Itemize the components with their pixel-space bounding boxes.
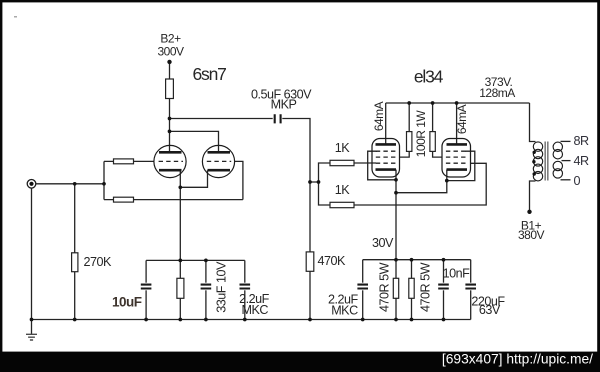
node rail 100R1 <box>407 101 411 105</box>
wire upper grid branch through R to left triode grid <box>104 160 154 162</box>
wire ground rail <box>32 319 471 321</box>
wire left EL34 cathode 30V line down <box>395 170 397 320</box>
resistor grid lower <box>114 197 134 202</box>
node rail 100R2 <box>431 101 435 105</box>
wire 2.2uF MKC leg <box>244 260 246 319</box>
node right cathode g3 <box>445 179 449 183</box>
svg-text:0: 0 <box>574 174 581 188</box>
capacitor 0.5uF MKP coupling <box>273 114 283 125</box>
wire secondary tap 4R <box>562 160 571 162</box>
wire left EL34 g3 to cathode frame <box>368 151 396 180</box>
capacitor 10uF <box>140 283 152 291</box>
resistor cathode 6sn7 <box>177 278 184 298</box>
input terminal <box>27 180 36 189</box>
wire EL34 cathode network top rail <box>363 259 471 261</box>
wire 6sn7 cathode bus down <box>179 170 181 319</box>
wire 1K2 to right EL34 g1 <box>354 163 486 205</box>
wire right triode cathode link <box>180 170 207 187</box>
svg-text:64mA: 64mA <box>455 104 469 134</box>
node gnd cath res <box>178 318 182 322</box>
wire right EL34 plate lead <box>456 103 458 144</box>
wire input down to ground rail <box>31 188 33 319</box>
wire transformer primary bottom to B1+ <box>530 181 536 212</box>
wire input to grid node <box>36 183 104 185</box>
node 30V rail <box>394 258 398 262</box>
capacitor 2.2uF MKC input stage <box>239 283 251 291</box>
wire grid bus to 1K pair <box>310 163 330 205</box>
wire secondary tap 0 <box>561 179 571 181</box>
capacitor 10nF <box>438 283 450 291</box>
node cath rail 2 <box>204 259 208 263</box>
node cath rail 1 <box>178 259 182 263</box>
wire EL34 plate rail <box>386 102 530 104</box>
wire grid node vertical split <box>103 161 105 199</box>
svg-text:470K: 470K <box>318 254 347 268</box>
capacitor 2.2uF MKC el34 <box>357 283 369 291</box>
svg-text:6sn7: 6sn7 <box>193 64 227 84</box>
wire B2+ feed down to left plate <box>169 62 171 152</box>
wire 10nF leg <box>443 260 445 320</box>
capacitor 220uF 63V <box>465 283 477 291</box>
svg-text:470R 5W: 470R 5W <box>419 262 433 312</box>
tube V1a 6sn7 triode left <box>154 145 186 177</box>
wire 1K1 to EL34 g1 left <box>354 162 376 164</box>
resistor 100R 1W right <box>430 132 435 152</box>
wire 270K branch <box>74 184 76 320</box>
wire 2.2uF MKC el34 leg <box>362 260 364 320</box>
svg-text:100R 1W: 100R 1W <box>414 110 428 158</box>
node 10nF top <box>442 258 446 262</box>
node gnd 2.2uF <box>243 318 247 322</box>
svg-text:MKC: MKC <box>242 303 269 317</box>
wire cathode network top rail <box>146 259 245 261</box>
terminal B2+ <box>167 60 171 64</box>
resistor grid upper <box>114 159 134 164</box>
svg-text:1K: 1K <box>335 183 351 197</box>
tube V1b 6sn7 triode right <box>202 145 234 177</box>
wire right EL34 g3 to cathode frame <box>447 151 475 180</box>
node left cathode g3 <box>394 178 398 182</box>
svg-text:380V: 380V <box>518 228 545 242</box>
wire lower grid branch long run <box>104 199 243 201</box>
svg-text:8R: 8R <box>574 134 590 148</box>
svg-text:30V: 30V <box>372 236 394 250</box>
node gnd 2.2uF el34 <box>361 318 365 322</box>
tube V3 el34 right <box>442 139 471 178</box>
svg-text:MKC: MKC <box>331 304 358 318</box>
wire 10uF leg <box>145 260 147 319</box>
resistor 470R 5W left <box>393 278 398 298</box>
resistor 1K upper <box>330 160 354 165</box>
node grid bus <box>308 180 312 184</box>
svg-text:300V: 300V <box>157 45 184 59</box>
watermark bar <box>0 352 600 372</box>
resistor 470K <box>306 252 314 271</box>
wire right EL34 cathode lead <box>396 170 447 193</box>
node grid split <box>102 182 106 186</box>
ground <box>26 320 37 341</box>
transformer T1 output <box>532 142 562 181</box>
wire left EL34 plate lead <box>385 103 387 144</box>
svg-text:63V: 63V <box>479 303 501 317</box>
svg-text:33uF 10V: 33uF 10V <box>215 261 229 313</box>
node gnd 33uF <box>204 318 208 322</box>
node plate link <box>168 130 172 134</box>
svg-text:4R: 4R <box>574 154 590 168</box>
resistor 100R 1W left <box>407 132 412 152</box>
svg-text:270K: 270K <box>84 255 113 269</box>
wire 100R 1 screen feed <box>400 103 410 157</box>
svg-text:1K: 1K <box>335 141 351 155</box>
node gnd 10nF <box>442 318 446 322</box>
node cathode bus join <box>394 191 398 195</box>
node gnd 470R1 <box>394 318 398 322</box>
node cathode join 6sn7 <box>178 185 182 189</box>
wire transformer primary top <box>530 103 536 142</box>
node 1K bus <box>317 180 321 184</box>
border frame <box>0 0 600 2</box>
wire plate link to right triode <box>170 131 219 152</box>
wire wrap to right triode grid <box>235 161 243 199</box>
svg-text:128mA: 128mA <box>479 86 515 100</box>
wire 470R 2 leg <box>411 260 413 320</box>
resistor 1K lower <box>330 202 354 207</box>
node gnd 270K <box>73 318 77 322</box>
svg-text:10uF: 10uF <box>112 295 142 310</box>
node coupling tap <box>168 117 172 121</box>
resistor 270K <box>72 253 78 272</box>
node gnd 470R2 <box>410 318 414 322</box>
node 470R2 top <box>410 258 414 262</box>
wire 33uF leg <box>205 260 207 319</box>
svg-text:470R 5W: 470R 5W <box>378 262 392 312</box>
svg-text:64mA: 64mA <box>372 101 386 131</box>
tube V2 el34 left <box>372 139 400 178</box>
wire coupling line to grid bus <box>170 119 311 320</box>
capacitor 33uF 10V <box>200 283 212 291</box>
node gnd input <box>30 318 34 322</box>
svg-text:10nF: 10nF <box>443 267 471 281</box>
resistor plate load 6sn7 <box>166 79 174 99</box>
svg-text:el34: el34 <box>414 67 444 87</box>
node input bus <box>73 182 77 186</box>
node gnd 10uF <box>144 318 148 322</box>
node gnd 470K <box>308 318 312 322</box>
terminal B1+ <box>527 210 531 214</box>
wire secondary tap 8R <box>561 140 571 142</box>
node rail right plate <box>455 101 459 105</box>
wire 100R 2 screen feed <box>433 103 442 157</box>
resistor 470R 5W right <box>409 278 414 298</box>
svg-text:MKP: MKP <box>271 98 297 112</box>
svg-text:B2+: B2+ <box>160 32 181 46</box>
svg-text:[693x407] http://upic.me/: [693x407] http://upic.me/ <box>442 352 593 367</box>
wire 220uF leg <box>470 260 472 320</box>
